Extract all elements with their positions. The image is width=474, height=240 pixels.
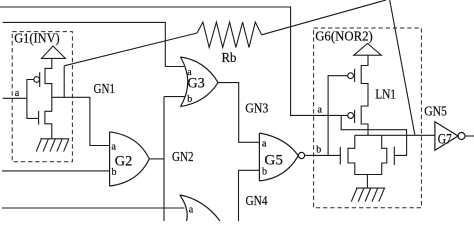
- wire input to G2 input b: [2, 170, 110, 172]
- wire GN4 stub to G5 input b: [239, 169, 260, 171]
- ground symbol of G6: [356, 187, 385, 189]
- bubble of G5 output: [298, 152, 304, 158]
- transistors P1,P2 of G6 in series (LN1 stack): [361, 55, 368, 135]
- wire GN2 stub to G3 input b: [164, 96, 185, 98]
- gate plate of G6 PMOS P2: [354, 110, 356, 123]
- node A input wire to G1: [3, 97, 27, 99]
- wire G2 output to GN2 rail: [149, 158, 164, 160]
- dashed box G1: [12, 32, 72, 162]
- wire diagonal from top edge down to node GN5: [390, 0, 415, 135]
- svg-text:b: b: [262, 166, 267, 177]
- gate plate of G6 PMOS P1: [354, 69, 356, 82]
- transistor pair N1,N2 of G6 shared diffusion block: [348, 135, 387, 174]
- or-gate G3: [181, 57, 219, 107]
- svg-text:b: b: [112, 167, 117, 178]
- nor-gate G5: [259, 133, 298, 181]
- wire diagonal from GN1 to resistor Rb: [64, 33, 197, 66]
- gate plate of G6 left NMOS: [339, 147, 341, 165]
- svg-text:a: a: [189, 204, 194, 215]
- resistor Rb: [197, 22, 262, 47]
- inverter G7: [435, 122, 458, 151]
- svg-text:GN2: GN2: [172, 150, 194, 165]
- svg-text:G7: G7: [438, 132, 452, 148]
- power VDD symbol of G6: [354, 44, 382, 56]
- wire GN1: G1 output to G2 input a: [52, 97, 110, 145]
- wire riser b to upper PMOS gate of G6: [328, 76, 348, 156]
- wire G7 output: [465, 135, 474, 137]
- wire G6 NMOS source to ground: [366, 175, 368, 189]
- svg-text:G3: G3: [187, 76, 204, 92]
- power VDD symbol of G1: [42, 46, 66, 58]
- svg-text:GN3: GN3: [245, 102, 268, 117]
- wire G1 gate riser to PMOS: [27, 80, 34, 99]
- svg-text:G2: G2: [115, 154, 133, 170]
- or-gate G2: [110, 132, 150, 186]
- svg-text:a: a: [262, 138, 267, 149]
- svg-text:a: a: [112, 141, 117, 152]
- svg-text:Rb: Rb: [222, 51, 237, 66]
- wire riser from GN1 to Rb diagonal: [63, 66, 65, 98]
- dashed box G6: [314, 28, 422, 208]
- transistor P of G1 (source-channel-drain) and transistor N of G1: [45, 58, 52, 138]
- wire bottom horizontal to G4 input a: [2, 207, 184, 209]
- svg-text:a: a: [15, 88, 20, 99]
- svg-text:a: a: [318, 104, 323, 115]
- ground symbol of G1: [41, 138, 70, 140]
- wire G5 output to G6 input b: [305, 154, 341, 156]
- wire net to G6 input a (top horizontal + right vertical): [0, 7, 348, 115]
- bubble on G1 PMOS gate: [34, 77, 40, 83]
- svg-text:a: a: [187, 67, 192, 78]
- wire GN2 vertical rail: [163, 97, 165, 221]
- wire G1 gate riser to NMOS: [27, 98, 39, 118]
- or-gate G4 (partially clipped): [180, 195, 220, 221]
- gate plate of G1 PMOS: [39, 72, 41, 87]
- wire branch a to right NMOS gate of G6: [341, 115, 406, 155]
- svg-text:LN1: LN1: [375, 88, 396, 103]
- wire GN3: G3 output to G5 input a: [218, 83, 259, 143]
- svg-text:b: b: [316, 144, 321, 155]
- svg-text:G6(NOR2): G6(NOR2): [315, 30, 373, 45]
- svg-text:G1(INV): G1(INV): [14, 32, 60, 47]
- gate plate of G6 right NMOS: [393, 147, 395, 166]
- svg-text:b: b: [187, 94, 192, 105]
- svg-text:G5: G5: [264, 153, 283, 169]
- svg-text:GN1: GN1: [94, 82, 116, 97]
- wire diagonal from Rb rising to top edge: [262, 0, 386, 35]
- wire net to G3 input a (second top horizontal): [3, 22, 185, 66]
- bubble on G6 P2 gate: [348, 113, 354, 119]
- gate plate of G1 NMOS: [38, 111, 40, 125]
- svg-text:GN4: GN4: [246, 194, 268, 209]
- wire GN4 vertical rail: [238, 170, 240, 221]
- wire GN5: G6 output rail to G7 input: [355, 134, 435, 136]
- svg-text:GN5: GN5: [424, 104, 447, 119]
- bubble of G7 output: [458, 133, 465, 140]
- bubble on G6 P1 gate: [348, 73, 354, 79]
